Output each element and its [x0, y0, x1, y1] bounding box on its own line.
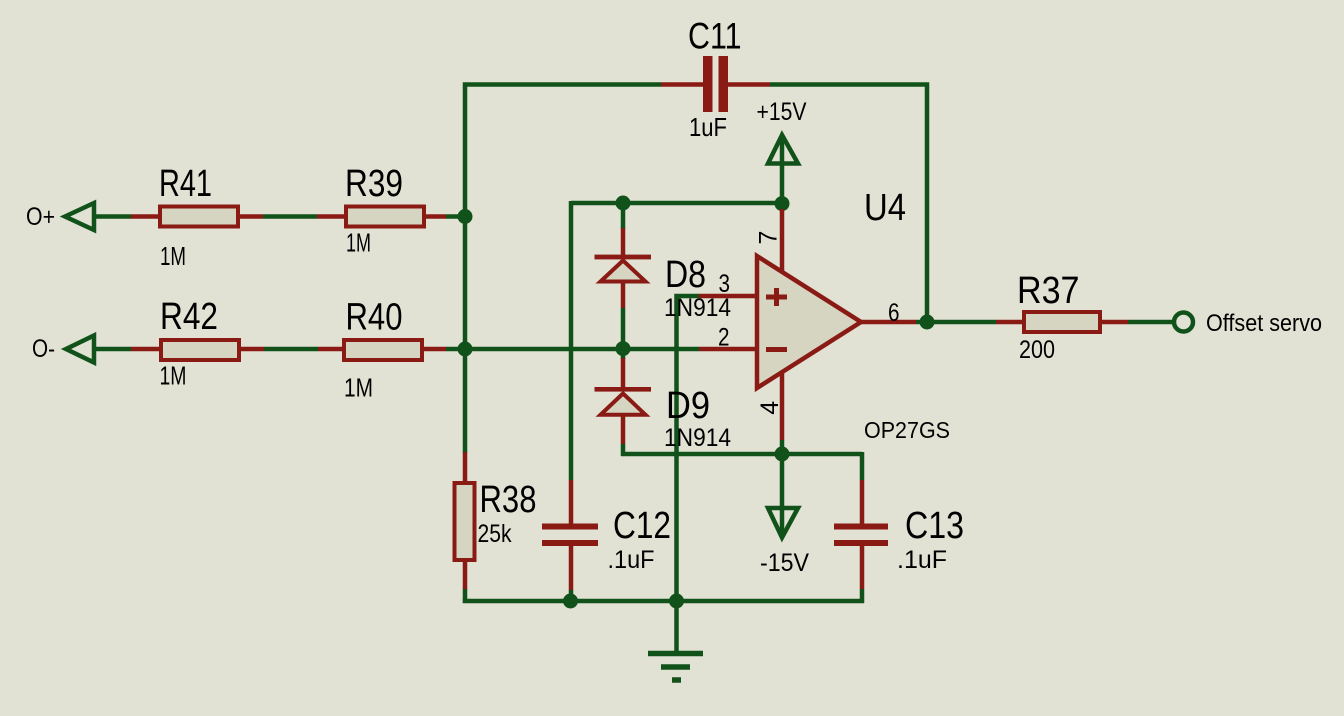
svg-text:O-: O- — [32, 335, 55, 363]
svg-text:C12: C12 — [613, 505, 671, 547]
svg-text:4: 4 — [756, 401, 784, 415]
svg-text:1M: 1M — [346, 228, 371, 258]
svg-text:R40: R40 — [346, 297, 403, 339]
svg-text:R41: R41 — [159, 163, 212, 205]
svg-text:Offset servo: Offset servo — [1206, 310, 1322, 337]
svg-text:7: 7 — [755, 231, 783, 245]
svg-text:O+: O+ — [26, 203, 55, 231]
svg-text:3: 3 — [719, 270, 731, 298]
svg-text:200: 200 — [1019, 336, 1055, 364]
svg-text:OP27GS: OP27GS — [864, 417, 950, 443]
svg-text:1uF: 1uF — [689, 112, 727, 142]
svg-text:C13: C13 — [905, 505, 964, 547]
svg-text:R38: R38 — [480, 479, 537, 521]
svg-text:1M: 1M — [344, 373, 373, 403]
svg-text:.1uF: .1uF — [897, 546, 947, 574]
svg-text:1M: 1M — [160, 361, 187, 391]
svg-text:.1uF: .1uF — [608, 546, 655, 574]
svg-text:6: 6 — [888, 299, 900, 327]
svg-text:+15V: +15V — [757, 98, 807, 126]
svg-text:R37: R37 — [1017, 270, 1080, 312]
svg-text:-15V: -15V — [760, 549, 809, 577]
svg-text:1N914: 1N914 — [664, 294, 731, 322]
svg-text:2: 2 — [718, 324, 730, 352]
svg-text:25k: 25k — [478, 520, 512, 548]
svg-text:D8: D8 — [665, 254, 706, 296]
svg-text:R42: R42 — [160, 296, 218, 338]
svg-text:1N914: 1N914 — [664, 424, 731, 452]
svg-text:D9: D9 — [666, 385, 710, 427]
svg-text:U4: U4 — [864, 187, 906, 229]
svg-text:1M: 1M — [160, 241, 186, 271]
svg-text:R39: R39 — [345, 163, 403, 205]
svg-text:C11: C11 — [688, 16, 742, 57]
